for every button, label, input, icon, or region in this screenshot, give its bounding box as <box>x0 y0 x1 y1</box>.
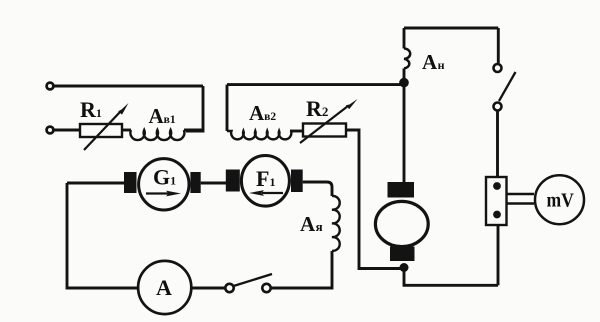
wire G1 left lead <box>67 182 124 185</box>
wire terminal T2 to R1 <box>54 129 80 132</box>
machine M armature <box>375 201 428 246</box>
wire R1 to coil <box>122 129 131 132</box>
wire A_B2 to R2 <box>290 130 303 133</box>
generator G1 <box>139 159 189 210</box>
wire switch S2 to terminal block <box>496 111 499 178</box>
inductor A_H <box>404 49 445 75</box>
machine F1 <box>241 156 289 207</box>
brush F1 left <box>226 170 240 192</box>
brush G1 left <box>124 172 137 193</box>
wire R2 right drop to junction <box>346 130 401 269</box>
wire top-left corner down <box>186 86 203 131</box>
meter mV <box>535 175 584 224</box>
wire F1 to A_YA coil <box>303 182 332 196</box>
wire A to switch S1 <box>192 287 225 290</box>
switch S1 <box>225 274 272 292</box>
wire load loop top <box>404 27 498 30</box>
brush motor top <box>388 182 415 198</box>
wire junction J2 down to bottom right rail <box>404 270 498 285</box>
terminal T2 <box>47 127 54 134</box>
resistor R1 (rheostat) <box>80 97 129 150</box>
wire load loop right upper <box>497 28 500 63</box>
wire bottom-left loop <box>67 183 138 288</box>
node junction J1 <box>399 78 409 88</box>
brush F1 right <box>291 170 303 193</box>
wire mV leads <box>507 194 535 204</box>
inductor A_YA <box>300 196 340 251</box>
svg-text:mV: mV <box>547 190 575 212</box>
svg-text:A: A <box>156 275 172 300</box>
ammeter A <box>138 261 191 314</box>
wire top-left horizontal <box>54 85 203 88</box>
terminal T1 <box>47 83 54 90</box>
wire G1 to F1 <box>201 182 226 185</box>
brush motor bottom <box>390 247 415 262</box>
node junction J2 <box>400 263 409 272</box>
wire A_H to junction node <box>403 68 406 80</box>
wire junction to motor top brush <box>403 86 406 182</box>
wire middle group left drop <box>226 85 229 131</box>
inductor A_B2 <box>227 101 291 139</box>
switch S2 (load switch) <box>494 64 516 111</box>
wire coil A_B1 to corner <box>184 129 203 132</box>
inductor A_B1 <box>130 104 184 140</box>
resistor R2 (rheostat) <box>300 96 358 143</box>
wire bottom right rail up to block <box>497 225 500 285</box>
terminal block mV <box>486 177 507 225</box>
wire middle group top <box>227 83 404 86</box>
brush G1 right <box>190 172 200 193</box>
wire load loop left upper <box>403 28 406 49</box>
wire A_YA down to bottom rail <box>271 251 332 288</box>
